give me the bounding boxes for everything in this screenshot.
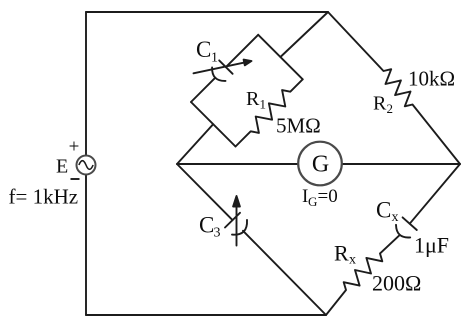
svg-text:=0: =0 — [318, 186, 338, 207]
svg-text:5MΩ: 5MΩ — [276, 114, 321, 138]
svg-text:x: x — [349, 253, 356, 268]
wire node L to C1/R1 box — [177, 124, 213, 164]
svg-text:3: 3 — [214, 226, 221, 241]
capacitor Cx — [396, 164, 460, 237]
capacitor C1 (variable) — [191, 35, 258, 102]
svg-text:C: C — [199, 213, 214, 238]
svg-text:C: C — [196, 37, 211, 62]
svg-text:x: x — [392, 210, 399, 225]
svg-text:+: + — [69, 137, 80, 158]
wire C1/R1 box to node T — [280, 12, 328, 57]
svg-text:10kΩ: 10kΩ — [408, 67, 455, 91]
resistor Rx — [326, 235, 400, 315]
capacitor C3 (variable) — [177, 164, 326, 315]
svg-text:C: C — [376, 198, 391, 223]
resistor R2 — [328, 12, 460, 164]
AC source E — [77, 156, 96, 175]
svg-text:R: R — [334, 241, 349, 266]
wire node L to galvanometer — [177, 163, 298, 165]
resistor R1 — [236, 79, 303, 146]
svg-text:R: R — [373, 93, 387, 115]
wire top rail — [86, 11, 328, 13]
svg-text:1: 1 — [211, 51, 218, 66]
svg-text:f= 1kHz: f= 1kHz — [9, 185, 79, 209]
galvanometer G — [298, 142, 342, 186]
wire galvanometer to node R — [342, 163, 460, 165]
svg-text:E: E — [56, 156, 68, 178]
wire box left end W-S — [191, 102, 236, 147]
svg-text:200Ω: 200Ω — [372, 271, 421, 296]
svg-text:R: R — [246, 88, 260, 110]
label - polarity — [71, 178, 80, 180]
wire left rail lower — [85, 175, 87, 316]
svg-text:G: G — [312, 152, 329, 178]
wire left rail upper — [85, 12, 87, 156]
svg-text:1μF: 1μF — [414, 233, 449, 258]
svg-text:G: G — [308, 194, 317, 209]
svg-text:2: 2 — [387, 101, 394, 116]
wire box right end N-E — [258, 35, 303, 80]
wire bottom rail — [86, 314, 326, 316]
svg-text:1: 1 — [260, 97, 267, 112]
